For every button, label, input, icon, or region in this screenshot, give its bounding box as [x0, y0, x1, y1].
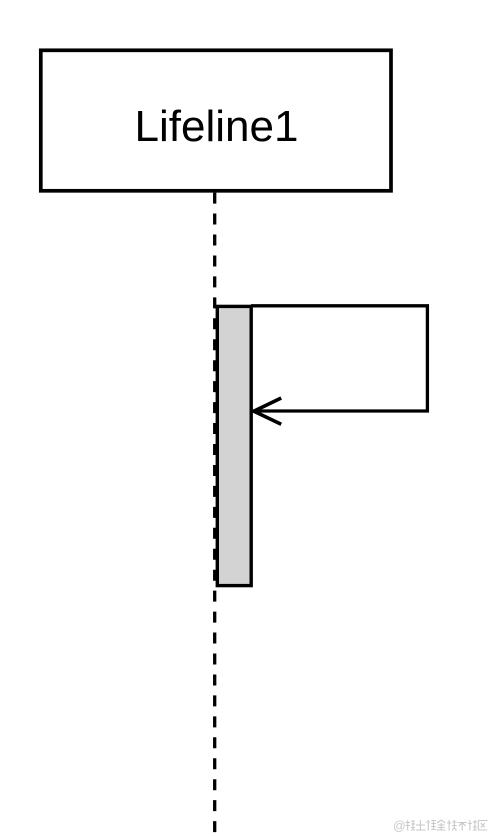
watermark char 1	[406, 820, 416, 831]
watermark char 2	[416, 820, 426, 830]
lifeline head box	[41, 50, 391, 191]
activation bar	[217, 306, 251, 585]
watermark char 8	[478, 821, 487, 831]
watermark char 4	[437, 820, 446, 830]
watermark	[393, 819, 487, 833]
arrowhead	[254, 398, 281, 424]
watermark char 5	[447, 820, 457, 831]
svg-text:Lifeline1: Lifeline1	[135, 102, 299, 151]
watermark char 6	[458, 823, 468, 831]
lifeline dashed line	[213, 193, 216, 833]
svg-text:@: @	[393, 819, 406, 833]
watermark char 7	[468, 820, 477, 831]
self-message line	[251, 306, 427, 411]
watermark char 3	[426, 820, 436, 831]
